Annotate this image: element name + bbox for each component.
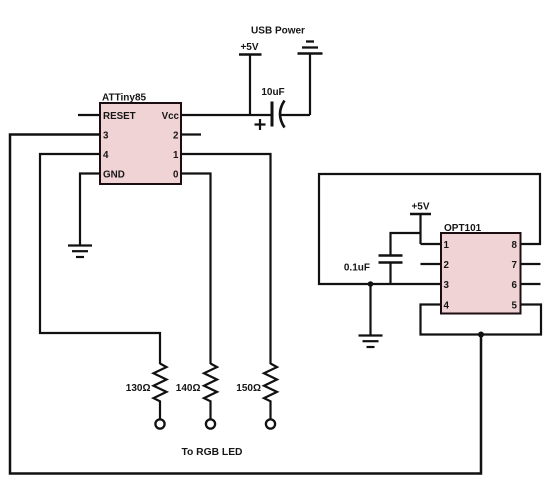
resistor R1 [154,364,167,429]
wire U1 pin3 left bus to OPT101 output (bottom loop) [10,135,481,474]
svg-text:3: 3 [103,130,109,141]
svg-text:USB Power: USB Power [251,26,305,37]
svg-text:1: 1 [173,150,179,161]
svg-text:Vcc: Vcc [162,111,180,122]
wire U1 pin2 stub [181,133,201,135]
wire U1 pin4 to resistor R1 [40,154,160,364]
wire U2 pin8 feedback loop to pin3 [319,174,540,284]
svg-text:OPT101: OPT101 [444,223,482,234]
wire RESET stub [78,114,100,116]
ground symbol (U1 GND) [68,246,92,258]
power +5V symbol (USB) [239,53,262,56]
wire U1 pin1 to resistor R3 [181,154,271,364]
svg-text:ATTiny85: ATTiny85 [102,93,147,104]
capacitor C2 (0.1uF) [379,256,403,263]
wire U2 pin7 stub [521,263,541,265]
svg-text:RESET: RESET [103,111,136,122]
svg-text:5: 5 [512,300,518,311]
svg-text:3: 3 [444,280,450,291]
wire junction to ground (OPT101) [369,284,371,336]
svg-text:150Ω: 150Ω [236,383,261,394]
resistor R2 [204,364,217,429]
svg-text:To RGB LED: To RGB LED [181,447,242,458]
wire U2 pin5 to pin4 (U loop) [421,305,542,335]
svg-text:10uF: 10uF [261,87,284,98]
wire C2 bottom to pin3 net [389,263,391,285]
svg-text:7: 7 [512,260,518,271]
svg-text:140Ω: 140Ω [176,383,201,394]
wire USB ground to capacitor C1 right [281,54,311,116]
wire U2 pin2 stub [421,263,442,265]
svg-text:4: 4 [103,150,109,161]
junction on U-wire below OPT101 [478,332,484,338]
svg-text:+5V: +5V [411,202,429,213]
IC U1 ATTiny85 body [100,103,181,184]
svg-text:0: 0 [173,169,179,180]
wire +5V to U2 pin1 [421,214,442,244]
power +5V symbol (OPT101) [410,213,431,216]
IC U2 OPT101 body [441,233,521,314]
svg-text:+5V: +5V [240,42,258,53]
junction C2/ground on pin3 net [368,281,374,287]
svg-text:2: 2 [173,130,179,141]
svg-text:8: 8 [512,240,518,251]
resistor R3 [264,364,277,429]
svg-text:130Ω: 130Ω [126,383,151,394]
svg-text:1: 1 [444,240,450,251]
svg-text:0.1uF: 0.1uF [344,263,370,274]
wire U2 pin6 stub [521,283,541,285]
svg-text:2: 2 [444,260,450,271]
wire +5V to Vcc net [249,55,251,117]
wire Vcc pin to capacitor C1 left [181,114,272,116]
wire U1 pin0 to resistor R2 [181,174,211,365]
svg-text:GND: GND [103,169,125,180]
svg-text:6: 6 [512,280,518,291]
ground symbol (USB, inverted) [298,42,323,54]
wire C2 top to +5V net [391,233,421,256]
capacitor C1 (polarized 10uF) [255,101,285,131]
wire U1 GND to ground [80,174,100,246]
svg-text:4: 4 [444,300,450,311]
ground symbol (OPT101) [359,336,383,348]
